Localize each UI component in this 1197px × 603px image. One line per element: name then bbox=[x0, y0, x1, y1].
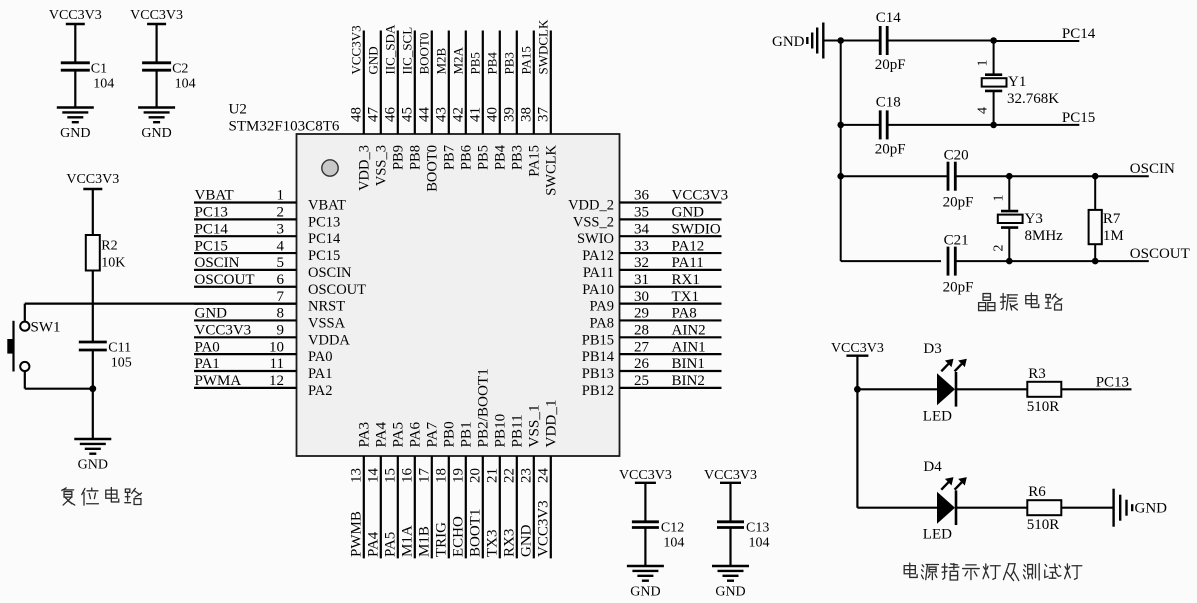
svg-text:R2: R2 bbox=[101, 239, 117, 254]
svg-text:16: 16 bbox=[400, 468, 416, 484]
wire bbox=[825, 40, 841, 42]
svg-text:STM32F103C8T6: STM32F103C8T6 bbox=[229, 119, 340, 135]
svg-text:PB3: PB3 bbox=[510, 145, 526, 170]
capacitor C13 bbox=[717, 520, 744, 523]
svg-text:PA15: PA15 bbox=[519, 46, 534, 74]
wire bbox=[841, 124, 880, 126]
pin 19 PB1 bbox=[465, 456, 467, 558]
svg-text:PC14: PC14 bbox=[195, 221, 229, 237]
pin 5 OSCIN bbox=[194, 269, 297, 271]
svg-text:VCC3V3: VCC3V3 bbox=[704, 468, 757, 483]
svg-text:1: 1 bbox=[277, 188, 285, 204]
pin 4 PC15 bbox=[194, 252, 297, 254]
svg-text:D3: D3 bbox=[923, 341, 941, 357]
svg-text:PB4: PB4 bbox=[485, 52, 500, 75]
svg-text:PB6: PB6 bbox=[459, 145, 475, 170]
svg-text:C12: C12 bbox=[661, 520, 684, 535]
wire bbox=[956, 388, 1027, 390]
svg-text:BIN1: BIN1 bbox=[672, 356, 705, 372]
svg-text:ECHO: ECHO bbox=[451, 516, 467, 557]
svg-text:8MHz: 8MHz bbox=[1025, 228, 1064, 244]
LED D3 bbox=[937, 373, 955, 405]
svg-text:PWMB: PWMB bbox=[349, 511, 365, 557]
svg-text:SWDIO: SWDIO bbox=[672, 221, 721, 237]
pin 29 PA8 bbox=[620, 319, 722, 321]
svg-text:R3: R3 bbox=[1028, 366, 1046, 382]
pin 42 PB6 bbox=[465, 31, 467, 135]
svg-text:PA5: PA5 bbox=[383, 532, 399, 557]
svg-text:LED: LED bbox=[923, 408, 952, 424]
svg-text:PB8: PB8 bbox=[408, 145, 424, 170]
svg-text:35: 35 bbox=[634, 205, 649, 221]
pin 32 PA11 bbox=[620, 269, 722, 271]
pin 12 PA2 bbox=[194, 387, 297, 389]
svg-text:PC13: PC13 bbox=[195, 205, 228, 221]
svg-text:PC15: PC15 bbox=[1062, 110, 1095, 126]
pin 11 PA1 bbox=[194, 370, 297, 372]
svg-text:PA8: PA8 bbox=[590, 315, 614, 331]
svg-text:VSS_1: VSS_1 bbox=[526, 404, 543, 447]
svg-text:31: 31 bbox=[634, 272, 649, 288]
svg-text:C2: C2 bbox=[172, 61, 188, 76]
svg-text:TX1: TX1 bbox=[672, 289, 700, 305]
pin 28 PB15 bbox=[620, 336, 722, 338]
svg-text:SW1: SW1 bbox=[31, 320, 61, 336]
svg-text:PA0: PA0 bbox=[308, 349, 332, 365]
ground bbox=[712, 565, 749, 567]
svg-text:C1: C1 bbox=[91, 61, 107, 76]
svg-text:Y3: Y3 bbox=[1025, 211, 1043, 227]
svg-text:4: 4 bbox=[976, 107, 991, 114]
svg-text:PB5: PB5 bbox=[476, 145, 492, 170]
svg-text:26: 26 bbox=[634, 356, 650, 372]
svg-text:PA0: PA0 bbox=[195, 339, 220, 355]
junction bbox=[1006, 258, 1013, 265]
pin 48 VDD_3 bbox=[363, 31, 365, 135]
caption fuweidianlu bbox=[62, 488, 142, 506]
svg-text:VDD_1: VDD_1 bbox=[543, 399, 560, 447]
svg-text:37: 37 bbox=[536, 107, 552, 123]
wire bbox=[841, 260, 941, 262]
net PC15 bbox=[994, 124, 1080, 126]
svg-text:33: 33 bbox=[634, 238, 649, 254]
LED D4 bbox=[937, 492, 955, 524]
ground bbox=[74, 438, 111, 440]
svg-text:OSCOUT: OSCOUT bbox=[1130, 246, 1190, 262]
svg-text:PA12: PA12 bbox=[672, 238, 705, 254]
svg-text:VBAT: VBAT bbox=[195, 188, 234, 204]
svg-text:D4: D4 bbox=[923, 459, 942, 475]
svg-text:32.768K: 32.768K bbox=[1007, 91, 1059, 107]
capacitor C21 bbox=[947, 247, 950, 276]
svg-text:IIC_SCL: IIC_SCL bbox=[400, 27, 415, 75]
svg-text:GND: GND bbox=[519, 524, 535, 557]
svg-text:9: 9 bbox=[277, 323, 285, 339]
pin 1 VBAT bbox=[194, 201, 297, 203]
svg-text:PC13: PC13 bbox=[1096, 374, 1129, 390]
svg-text:27: 27 bbox=[634, 339, 650, 355]
svg-text:VCC3V3: VCC3V3 bbox=[130, 8, 183, 23]
svg-text:PA8: PA8 bbox=[672, 306, 697, 322]
pin 13 PA3 bbox=[363, 456, 365, 558]
svg-text:13: 13 bbox=[349, 468, 365, 483]
svg-text:GND: GND bbox=[672, 205, 705, 221]
svg-text:VCC3V3: VCC3V3 bbox=[831, 341, 884, 356]
wire bbox=[25, 388, 93, 390]
svg-text:OSCOUT: OSCOUT bbox=[308, 282, 366, 298]
wire bbox=[857, 388, 937, 390]
svg-text:46: 46 bbox=[383, 107, 399, 123]
svg-text:RX1: RX1 bbox=[672, 272, 700, 288]
junction bbox=[1006, 173, 1013, 180]
pin 25 PB12 bbox=[620, 387, 722, 389]
pin 39 PB3 bbox=[516, 31, 518, 135]
svg-text:20pF: 20pF bbox=[875, 141, 906, 157]
wire bbox=[1061, 507, 1112, 509]
svg-text:29: 29 bbox=[634, 306, 649, 322]
pin 20 PB2/BOOT1 bbox=[482, 456, 484, 558]
pin 40 PB4 bbox=[499, 31, 501, 135]
svg-text:39: 39 bbox=[502, 107, 518, 122]
svg-text:11: 11 bbox=[270, 356, 284, 372]
svg-text:43: 43 bbox=[434, 107, 450, 122]
svg-text:GND: GND bbox=[60, 126, 90, 141]
wire bbox=[1061, 388, 1131, 390]
svg-text:VBAT: VBAT bbox=[308, 198, 346, 214]
junction bbox=[837, 37, 844, 44]
svg-text:PB7: PB7 bbox=[442, 145, 458, 170]
svg-text:VCC3V3: VCC3V3 bbox=[349, 25, 364, 74]
svg-text:C13: C13 bbox=[746, 520, 769, 535]
svg-text:PA11: PA11 bbox=[672, 255, 704, 271]
pin 23 VSS_1 bbox=[533, 456, 535, 558]
svg-text:GND: GND bbox=[1135, 501, 1168, 517]
svg-text:30: 30 bbox=[634, 289, 649, 305]
wire bbox=[841, 40, 880, 42]
junction bbox=[854, 386, 861, 393]
svg-text:PC13: PC13 bbox=[308, 214, 340, 230]
caption dianyuan... bbox=[904, 563, 1082, 581]
svg-text:VCC3V3: VCC3V3 bbox=[672, 188, 729, 204]
svg-text:VDDA: VDDA bbox=[308, 332, 350, 348]
wire bbox=[1008, 176, 1010, 210]
svg-text:GND: GND bbox=[141, 126, 171, 141]
svg-text:PA7: PA7 bbox=[424, 421, 441, 447]
svg-text:SWDCLK: SWDCLK bbox=[536, 19, 551, 75]
pin 44 BOOT0 bbox=[431, 31, 433, 135]
resistor R3 bbox=[1027, 382, 1061, 397]
wire bbox=[644, 528, 646, 567]
wire bbox=[1094, 176, 1096, 210]
svg-text:24: 24 bbox=[536, 468, 552, 484]
svg-text:20pF: 20pF bbox=[943, 195, 974, 211]
wire bbox=[24, 304, 26, 322]
svg-text:BIN2: BIN2 bbox=[672, 373, 705, 389]
svg-text:21: 21 bbox=[485, 468, 501, 483]
svg-text:PB0: PB0 bbox=[441, 421, 458, 448]
svg-text:BOOT0: BOOT0 bbox=[417, 33, 432, 75]
pin 45 PB8 bbox=[414, 31, 416, 135]
svg-text:Y1: Y1 bbox=[1008, 74, 1026, 90]
wire bbox=[729, 528, 731, 567]
svg-text:10: 10 bbox=[269, 339, 284, 355]
svg-text:M2A: M2A bbox=[451, 46, 466, 74]
svg-text:44: 44 bbox=[417, 107, 433, 123]
svg-text:PA10: PA10 bbox=[582, 282, 614, 298]
svg-text:VCC3V3: VCC3V3 bbox=[195, 323, 252, 339]
wire bbox=[956, 507, 1027, 509]
svg-text:1M: 1M bbox=[1103, 228, 1124, 244]
wire bbox=[1094, 244, 1096, 261]
wire bbox=[887, 40, 993, 42]
svg-text:40: 40 bbox=[485, 107, 501, 122]
pin 15 PA5 bbox=[397, 456, 399, 558]
wire bus bbox=[840, 41, 842, 262]
svg-text:OSCIN: OSCIN bbox=[195, 255, 240, 271]
pin 38 PA15 bbox=[533, 31, 535, 135]
pin 30 PA9 bbox=[620, 303, 722, 305]
wire bbox=[955, 175, 1149, 177]
svg-text:PA1: PA1 bbox=[195, 356, 220, 372]
svg-text:23: 23 bbox=[519, 468, 535, 483]
svg-text:PA1: PA1 bbox=[308, 366, 332, 382]
svg-text:RX3: RX3 bbox=[502, 529, 518, 557]
svg-text:SWCLK: SWCLK bbox=[544, 144, 560, 195]
junction bbox=[1092, 173, 1099, 180]
svg-text:OSCIN: OSCIN bbox=[1130, 161, 1175, 177]
svg-text:47: 47 bbox=[366, 107, 382, 123]
svg-text:48: 48 bbox=[349, 107, 365, 122]
pin 36 VDD_2 bbox=[620, 201, 722, 203]
capacitor C18 bbox=[879, 110, 882, 139]
svg-text:C18: C18 bbox=[876, 94, 901, 110]
svg-text:15: 15 bbox=[383, 468, 399, 483]
ground bbox=[627, 565, 664, 567]
svg-text:GND: GND bbox=[772, 34, 805, 50]
svg-text:OSCOUT: OSCOUT bbox=[195, 272, 255, 288]
caption jingzhendianlu bbox=[979, 293, 1062, 311]
svg-text:22: 22 bbox=[502, 468, 518, 483]
svg-text:PA5: PA5 bbox=[390, 422, 407, 448]
svg-text:PB12: PB12 bbox=[582, 383, 614, 399]
svg-text:PWMA: PWMA bbox=[195, 373, 242, 389]
wire bbox=[1008, 228, 1010, 262]
wire bbox=[92, 350, 94, 439]
junction bbox=[837, 122, 844, 129]
svg-text:PC14: PC14 bbox=[308, 231, 341, 247]
junction bbox=[990, 122, 997, 129]
svg-text:20pF: 20pF bbox=[943, 280, 974, 296]
wire bbox=[955, 260, 1149, 262]
svg-text:20: 20 bbox=[468, 468, 484, 483]
pin 47 VSS_3 bbox=[380, 31, 382, 135]
capacitor C1 bbox=[61, 61, 90, 64]
svg-text:PC15: PC15 bbox=[195, 238, 228, 254]
wire bbox=[993, 41, 995, 74]
pin-1 marker bbox=[322, 160, 338, 176]
svg-text:32: 32 bbox=[634, 255, 649, 271]
svg-text:C21: C21 bbox=[944, 233, 969, 249]
op IC U2 STM32F103C8T6 body bbox=[297, 134, 620, 456]
svg-text:GND: GND bbox=[78, 458, 108, 473]
pin 33 PA12 bbox=[620, 252, 722, 254]
resistor R6 bbox=[1027, 500, 1061, 515]
junction bbox=[89, 385, 96, 392]
svg-text:BOOT1: BOOT1 bbox=[468, 509, 484, 557]
svg-text:PA15: PA15 bbox=[527, 145, 543, 177]
svg-text:42: 42 bbox=[451, 107, 467, 122]
svg-text:3: 3 bbox=[277, 221, 285, 237]
svg-text:104: 104 bbox=[663, 535, 684, 550]
svg-text:LED: LED bbox=[923, 527, 952, 543]
svg-text:104: 104 bbox=[93, 76, 114, 91]
capacitor C2 bbox=[142, 61, 171, 64]
svg-text:PA11: PA11 bbox=[583, 265, 614, 281]
svg-text:PB14: PB14 bbox=[582, 349, 615, 365]
pin 10 PA0 bbox=[194, 353, 297, 355]
svg-text:GND: GND bbox=[715, 585, 745, 600]
svg-text:PB11: PB11 bbox=[509, 414, 526, 447]
svg-text:18: 18 bbox=[434, 468, 450, 483]
svg-text:M2B: M2B bbox=[434, 47, 449, 74]
svg-text:10K: 10K bbox=[101, 256, 125, 271]
svg-text:34: 34 bbox=[634, 221, 650, 237]
ground bbox=[57, 106, 94, 108]
pin 41 PB5 bbox=[482, 31, 484, 135]
svg-text:PB1: PB1 bbox=[458, 421, 475, 447]
wire bbox=[156, 70, 158, 107]
svg-text:8: 8 bbox=[277, 306, 285, 322]
svg-text:PB15: PB15 bbox=[582, 332, 614, 348]
pin 14 PA4 bbox=[380, 456, 382, 558]
svg-text:VSS_2: VSS_2 bbox=[573, 214, 614, 230]
pin 43 PB7 bbox=[448, 31, 450, 135]
resistor R2 bbox=[86, 235, 100, 271]
svg-text:BOOT0: BOOT0 bbox=[425, 145, 441, 192]
ground bbox=[138, 106, 175, 108]
svg-text:PA3: PA3 bbox=[356, 422, 373, 448]
junction bbox=[990, 37, 997, 44]
svg-text:25: 25 bbox=[634, 373, 649, 389]
pin 35 VSS_2 bbox=[620, 218, 722, 220]
pin 7 NRST bbox=[194, 303, 297, 305]
svg-text:PA12: PA12 bbox=[582, 248, 614, 264]
svg-text:2: 2 bbox=[277, 205, 285, 221]
svg-text:R6: R6 bbox=[1028, 484, 1046, 500]
svg-text:2: 2 bbox=[991, 245, 1006, 252]
pin 34 SWIO bbox=[620, 235, 722, 237]
wire bbox=[841, 175, 948, 177]
svg-text:12: 12 bbox=[269, 373, 284, 389]
svg-text:105: 105 bbox=[111, 356, 132, 371]
svg-text:GND: GND bbox=[630, 585, 660, 600]
svg-text:C11: C11 bbox=[108, 341, 131, 356]
pin 17 PA7 bbox=[431, 456, 433, 558]
svg-text:C20: C20 bbox=[944, 148, 969, 164]
svg-text:5: 5 bbox=[277, 255, 285, 271]
wire bbox=[993, 91, 995, 125]
switch SW1 bbox=[20, 322, 29, 331]
svg-text:510R: 510R bbox=[1027, 399, 1060, 415]
svg-text:PA4: PA4 bbox=[373, 421, 390, 447]
svg-text:PB9: PB9 bbox=[391, 145, 407, 170]
svg-text:VCC3V3: VCC3V3 bbox=[619, 468, 672, 483]
svg-text:PC14: PC14 bbox=[1062, 26, 1096, 42]
ground (LED) bbox=[1112, 489, 1114, 527]
svg-text:OSCIN: OSCIN bbox=[308, 265, 352, 281]
svg-text:VCC3V3: VCC3V3 bbox=[49, 8, 102, 23]
pin 31 PA10 bbox=[620, 286, 722, 288]
svg-text:17: 17 bbox=[417, 468, 433, 484]
pin 24 VDD_1 bbox=[550, 456, 552, 558]
svg-text:PB3: PB3 bbox=[502, 52, 517, 74]
capacitor C14 bbox=[879, 26, 882, 55]
svg-text:M1B: M1B bbox=[417, 526, 433, 557]
pin 26 PB13 bbox=[620, 370, 722, 372]
svg-text:VDD_3: VDD_3 bbox=[357, 145, 373, 191]
svg-text:GND: GND bbox=[366, 46, 381, 74]
svg-text:PB2/BOOT1: PB2/BOOT1 bbox=[475, 368, 492, 447]
wire bbox=[887, 124, 993, 126]
wire bbox=[74, 70, 76, 107]
svg-text:36: 36 bbox=[634, 188, 650, 204]
wire bbox=[856, 389, 858, 507]
svg-text:R7: R7 bbox=[1103, 211, 1121, 227]
svg-text:1: 1 bbox=[991, 195, 1006, 202]
svg-text:1: 1 bbox=[976, 60, 991, 67]
svg-text:PB13: PB13 bbox=[582, 366, 614, 382]
svg-text:M1A: M1A bbox=[400, 525, 416, 557]
svg-text:NRST: NRST bbox=[308, 299, 345, 315]
capacitor C20 bbox=[947, 162, 950, 191]
svg-text:VSS_3: VSS_3 bbox=[374, 145, 390, 186]
net PC14 bbox=[994, 40, 1080, 42]
svg-text:19: 19 bbox=[451, 468, 467, 483]
svg-text:45: 45 bbox=[400, 107, 416, 122]
pin 37 SWCLK bbox=[550, 31, 552, 135]
svg-text:PB5: PB5 bbox=[468, 52, 483, 74]
svg-text:PA9: PA9 bbox=[590, 299, 614, 315]
svg-text:28: 28 bbox=[634, 323, 649, 339]
svg-text:PB10: PB10 bbox=[492, 413, 509, 447]
wire NRST bbox=[25, 303, 297, 305]
svg-text:VCC3V3: VCC3V3 bbox=[536, 500, 552, 557]
svg-text:VSSA: VSSA bbox=[308, 315, 346, 331]
pin 18 PB0 bbox=[448, 456, 450, 558]
svg-text:104: 104 bbox=[749, 535, 770, 550]
svg-text:AIN2: AIN2 bbox=[672, 323, 706, 339]
svg-text:VDD_2: VDD_2 bbox=[568, 198, 614, 214]
svg-text:7: 7 bbox=[277, 289, 285, 305]
svg-text:GND: GND bbox=[195, 306, 228, 322]
svg-text:TRIG: TRIG bbox=[434, 522, 450, 557]
wire bbox=[857, 507, 937, 509]
svg-text:104: 104 bbox=[175, 76, 196, 91]
svg-text:IIC_SDA: IIC_SDA bbox=[383, 24, 398, 74]
capacitor C12 bbox=[632, 520, 659, 523]
svg-text:38: 38 bbox=[519, 107, 535, 122]
pin 21 PB10 bbox=[499, 456, 501, 558]
pin 22 PB11 bbox=[516, 456, 518, 558]
pin 6 OSCOUT bbox=[194, 286, 297, 288]
svg-text:PC15: PC15 bbox=[308, 248, 340, 264]
wire bbox=[92, 271, 94, 343]
svg-text:PA2: PA2 bbox=[308, 383, 332, 399]
svg-text:20pF: 20pF bbox=[875, 57, 906, 73]
svg-text:C14: C14 bbox=[876, 10, 902, 26]
pin 16 PA6 bbox=[414, 456, 416, 558]
pin 8 VSSA bbox=[194, 319, 297, 321]
